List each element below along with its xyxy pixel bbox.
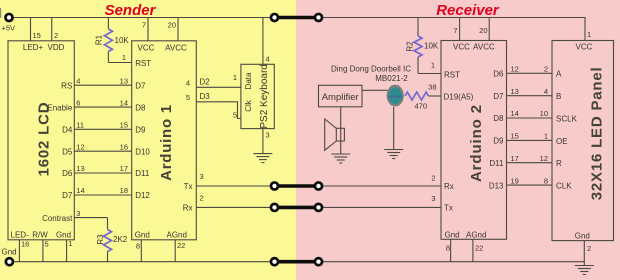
connector link Gnd: [275, 260, 319, 264]
svg-text:5: 5: [186, 93, 190, 102]
wire D8 to SCLK: [507, 117, 553, 119]
svg-text:D11: D11: [135, 169, 150, 178]
wire Contrast: [74, 217, 107, 219]
wire AVCC pin20 stub: [488, 18, 490, 41]
wire D7 to D12: [74, 194, 131, 196]
svg-text:A: A: [556, 70, 562, 79]
svg-text:19: 19: [511, 176, 519, 185]
wire R1 to RST: [107, 52, 109, 63]
PS2 Keyboard box: [241, 64, 274, 128]
svg-text:AVCC: AVCC: [165, 44, 187, 53]
svg-text:B: B: [556, 92, 561, 101]
wire LCD pin2 stub: [51, 18, 53, 41]
wire LCD pin1 stub: [66, 240, 68, 262]
wire D2 to PS2 Data: [196, 86, 241, 88]
svg-text:1: 1: [431, 61, 435, 70]
node Tx sender: [270, 181, 280, 191]
svg-text:4: 4: [266, 55, 270, 64]
wire D6 to D11: [74, 172, 131, 174]
svg-text:D8: D8: [493, 114, 504, 123]
svg-text:Data: Data: [244, 72, 253, 89]
resistor R2 10K: [414, 36, 422, 57]
ground speaker: [331, 154, 350, 163]
wire LCD pin5 stub: [42, 240, 44, 262]
wire Rx sender: [196, 206, 274, 208]
svg-text:MB021-2: MB021-2: [375, 74, 408, 83]
svg-text:D3: D3: [200, 92, 211, 101]
svg-text:SCLK: SCLK: [556, 114, 578, 123]
svg-text:10K: 10K: [424, 42, 439, 51]
svg-text:Gnd: Gnd: [575, 231, 590, 240]
wire R2 down: [417, 57, 419, 74]
wire doorbell to ground: [393, 107, 395, 150]
svg-text:Sender: Sender: [105, 2, 157, 19]
wire Contrast down to R3: [107, 218, 109, 230]
svg-text:+5V: +5V: [2, 24, 16, 33]
wire PS2 pin3 to ground: [262, 129, 264, 154]
wire +5V drop to LED panel VCC: [584, 17, 586, 41]
svg-text:Enable: Enable: [47, 103, 72, 112]
node gnd receiver: [314, 257, 324, 267]
svg-text:Rx: Rx: [183, 204, 193, 213]
node gnd sender: [270, 257, 280, 267]
svg-text:4: 4: [186, 79, 190, 88]
svg-text:D7: D7: [493, 92, 504, 101]
svg-text:D19(A5): D19(A5): [444, 93, 474, 102]
svg-text:5: 5: [233, 111, 237, 120]
svg-text:1: 1: [122, 53, 126, 62]
wire panel gnd stub: [583, 241, 585, 266]
svg-text:3: 3: [266, 131, 270, 140]
wire Arduino1 pin22 stub: [174, 240, 176, 262]
svg-text:LED-: LED-: [11, 231, 30, 240]
svg-text:LED+: LED+: [23, 43, 44, 52]
svg-text:D8: D8: [135, 103, 146, 112]
sender background: [0, 0, 296, 280]
svg-text:VCC: VCC: [576, 43, 593, 52]
svg-text:OE: OE: [556, 137, 568, 146]
wire rail to R1: [107, 18, 109, 30]
svg-text:1: 1: [587, 30, 591, 39]
wire +5V rail sender: [9, 17, 275, 19]
connector link Tx: [275, 184, 319, 188]
svg-text:3: 3: [76, 209, 80, 218]
svg-text:Tx: Tx: [184, 182, 193, 191]
svg-text:D12: D12: [135, 191, 150, 200]
svg-text:7: 7: [142, 21, 146, 30]
svg-text:Arduino 1: Arduino 1: [158, 104, 175, 181]
wire Arduino1 pin8 stub: [140, 240, 142, 262]
svg-text:Contrast: Contrast: [42, 214, 73, 223]
wire RS to D7: [74, 84, 131, 86]
svg-text:1: 1: [544, 132, 548, 141]
svg-text:32X16 LED Panel: 32X16 LED Panel: [589, 67, 606, 201]
svg-text:14: 14: [120, 98, 128, 107]
ground doorbell: [384, 150, 403, 159]
wire VCC pin7 stub: [147, 18, 149, 41]
svg-text:22: 22: [475, 244, 483, 253]
svg-text:R/W: R/W: [32, 231, 48, 240]
wire fragment at left edge: [0, 8, 2, 18]
node gnd supply: [4, 257, 14, 267]
svg-text:D2: D2: [200, 77, 211, 86]
svg-text:CLK: CLK: [556, 182, 572, 191]
node Rx receiver: [314, 203, 324, 213]
wire D11 to R: [507, 162, 553, 164]
svg-text:12: 12: [511, 65, 519, 74]
node +5V sender: [270, 13, 280, 23]
svg-text:20: 20: [168, 21, 176, 30]
svg-text:15: 15: [511, 132, 519, 141]
svg-text:D5: D5: [62, 147, 73, 156]
svg-text:Clk: Clk: [244, 99, 253, 112]
svg-text:2: 2: [54, 31, 58, 40]
ground panel: [575, 266, 594, 275]
svg-text:6: 6: [76, 98, 80, 107]
svg-text:14: 14: [511, 109, 519, 118]
svg-text:470: 470: [415, 102, 428, 111]
wire D9 to OE: [507, 139, 553, 141]
svg-text:3: 3: [431, 194, 435, 203]
svg-text:VCC: VCC: [453, 43, 470, 52]
svg-text:13: 13: [120, 76, 128, 85]
svg-text:22: 22: [177, 241, 185, 250]
svg-text:AVCC: AVCC: [473, 43, 495, 52]
connector node pair +5V link: [275, 16, 319, 20]
svg-text:3: 3: [200, 172, 204, 181]
wire D5 to D10: [74, 150, 131, 152]
svg-text:Tx: Tx: [444, 204, 453, 213]
wire amplifier to doorbell: [362, 89, 388, 91]
svg-text:1: 1: [233, 73, 237, 82]
svg-text:15: 15: [33, 31, 41, 40]
svg-text:AGnd: AGnd: [466, 231, 486, 240]
wire rail to R2: [417, 18, 419, 37]
svg-text:D10: D10: [135, 147, 150, 156]
svg-text:18: 18: [120, 186, 128, 195]
svg-text:PS2 Keyboard: PS2 Keyboard: [259, 64, 270, 128]
Amplifier box: [319, 85, 363, 107]
wire Arduino2 pin22 stub: [472, 239, 474, 261]
svg-text:RST: RST: [444, 71, 460, 80]
svg-text:R1: R1: [94, 34, 103, 45]
Arduino 2 box U2: [441, 41, 507, 240]
node +5V receiver: [314, 13, 324, 23]
svg-text:5: 5: [45, 240, 49, 249]
wire D7 to B: [507, 95, 553, 97]
svg-text:16: 16: [21, 240, 29, 249]
svg-text:D6: D6: [493, 70, 504, 79]
svg-text:2: 2: [587, 244, 591, 253]
svg-text:R: R: [556, 159, 562, 168]
svg-text:Receiver: Receiver: [436, 2, 500, 19]
svg-text:17: 17: [120, 164, 128, 173]
connector link Rx: [275, 206, 319, 210]
wire VCC pin7 stub: [459, 18, 461, 41]
node +5V supply: [4, 13, 14, 23]
wire Enable to D8: [74, 106, 131, 108]
node Rx sender: [270, 203, 280, 213]
doorbell IC MB021-2: [387, 85, 404, 107]
svg-text:14: 14: [76, 186, 84, 195]
svg-text:D11: D11: [489, 159, 504, 168]
svg-text:17: 17: [511, 154, 519, 163]
wire AVCC pin20 stub: [177, 18, 179, 41]
Arduino 1 box U1: [132, 41, 197, 240]
svg-text:2: 2: [431, 174, 435, 183]
wire to Rx receiver: [319, 185, 442, 187]
resistor R1 10K: [104, 29, 112, 52]
svg-text:RS: RS: [61, 81, 72, 90]
svg-text:Amplifier: Amplifier: [322, 92, 359, 103]
svg-text:R3: R3: [96, 234, 105, 245]
svg-text:11: 11: [76, 121, 84, 130]
svg-text:16: 16: [120, 142, 128, 151]
svg-text:12: 12: [540, 154, 548, 163]
svg-text:8: 8: [136, 242, 140, 251]
svg-text:4: 4: [76, 76, 80, 85]
wire +5V rail receiver: [319, 17, 586, 19]
wire R3 to gnd rail: [107, 252, 109, 262]
svg-text:20: 20: [479, 26, 487, 35]
svg-text:2: 2: [200, 193, 204, 202]
svg-text:2: 2: [544, 65, 548, 74]
ground PS2: [253, 154, 272, 163]
svg-text:RST: RST: [135, 59, 151, 68]
svg-text:Gnd: Gnd: [445, 231, 460, 240]
svg-text:13: 13: [511, 87, 519, 96]
svg-text:Gnd: Gnd: [135, 231, 150, 240]
svg-text:13: 13: [76, 164, 84, 173]
svg-text:8: 8: [446, 244, 450, 253]
wire LCD pin16 stub: [18, 240, 20, 262]
svg-text:1: 1: [68, 239, 72, 248]
node Tx receiver: [314, 181, 324, 191]
wire to Tx receiver: [319, 206, 442, 208]
svg-text:D4: D4: [62, 126, 73, 135]
1602 LCD box: [8, 41, 74, 240]
wire D13 to CLK: [507, 184, 553, 186]
svg-text:D7: D7: [62, 191, 73, 200]
svg-text:10K: 10K: [115, 36, 130, 45]
wire gnd rail receiver: [319, 261, 585, 263]
svg-text:38: 38: [428, 83, 436, 92]
svg-text:D6: D6: [62, 169, 73, 178]
svg-text:15: 15: [120, 121, 128, 130]
wire D4 to D9: [74, 128, 131, 130]
wire 470 to D19: [429, 95, 442, 97]
resistor R3 2K2: [104, 230, 112, 252]
resistor 470: [405, 92, 429, 100]
wire RST: [108, 62, 131, 64]
svg-text:AGnd: AGnd: [167, 231, 187, 240]
svg-text:2K2: 2K2: [113, 235, 128, 244]
svg-text:Arduino 2: Arduino 2: [468, 104, 485, 182]
receiver background: [296, 0, 620, 280]
svg-text:VDD: VDD: [48, 43, 65, 52]
speaker LS1: [336, 128, 344, 141]
svg-text:1602 LCD: 1602 LCD: [35, 102, 52, 177]
svg-text:12: 12: [76, 142, 84, 151]
svg-text:8: 8: [544, 176, 548, 185]
svg-text:Gnd: Gnd: [2, 248, 17, 257]
wire Arduino2 pin8 stub: [450, 239, 452, 261]
wire amplifier to speaker gnd: [340, 107, 342, 154]
wire D3 to PS2 Clk: [196, 102, 241, 119]
wire PS2 pin4 stub to +5V: [262, 18, 264, 65]
svg-text:7: 7: [453, 26, 457, 35]
svg-text:R2: R2: [405, 41, 414, 52]
wire gnd rail sender: [9, 261, 274, 263]
wire Tx sender: [196, 185, 274, 187]
svg-text:Rx: Rx: [444, 182, 454, 191]
svg-text:VCC: VCC: [138, 44, 155, 53]
svg-text:D9: D9: [135, 126, 146, 135]
svg-text:Ding Dong Doorbell IC: Ding Dong Doorbell IC: [331, 65, 411, 74]
svg-text:D7: D7: [135, 81, 146, 90]
svg-text:D9: D9: [493, 137, 504, 146]
svg-text:10: 10: [540, 109, 548, 118]
wire RST receiver: [418, 73, 441, 75]
wire LCD pin15 stub: [30, 18, 32, 41]
wire D6 to A: [507, 72, 553, 74]
svg-text:4: 4: [544, 87, 548, 96]
svg-text:D13: D13: [489, 181, 504, 190]
32X16 LED Panel box: [552, 41, 614, 241]
